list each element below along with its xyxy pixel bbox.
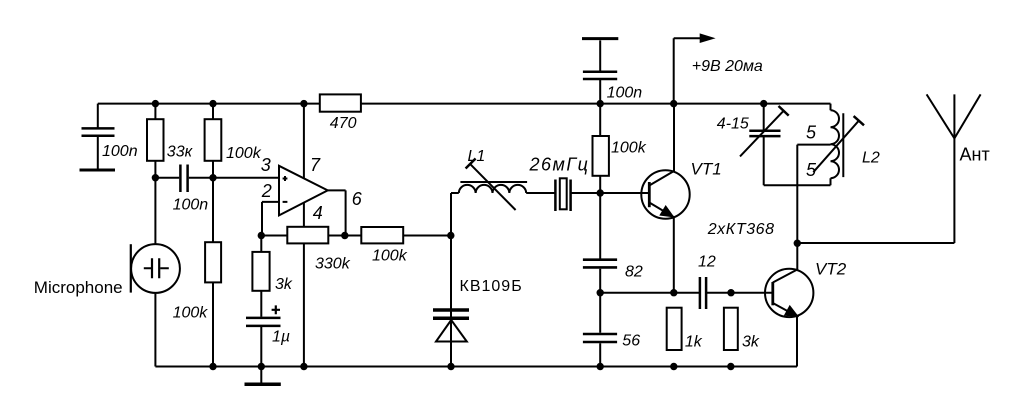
svg-text:VT2: VT2: [815, 259, 847, 278]
svg-text:L2: L2: [862, 149, 880, 166]
svg-text:470: 470: [330, 115, 357, 132]
svg-text:100n: 100n: [173, 197, 209, 214]
svg-text:3k: 3k: [275, 276, 293, 293]
svg-text:26мГц: 26мГц: [529, 154, 590, 174]
svg-text:56: 56: [622, 333, 640, 350]
svg-text:3k: 3k: [742, 334, 760, 351]
svg-text:5: 5: [806, 160, 817, 180]
svg-text:Microphone: Microphone: [34, 278, 123, 297]
svg-text:2: 2: [261, 181, 272, 201]
svg-text:3: 3: [261, 155, 271, 175]
svg-text:1k: 1k: [685, 334, 703, 351]
svg-text:100k: 100k: [173, 305, 209, 322]
svg-text:100k: 100k: [372, 247, 408, 264]
svg-text:+9В 20ма: +9В 20ма: [692, 58, 763, 75]
svg-text:12: 12: [698, 254, 716, 271]
svg-text:6: 6: [352, 189, 363, 209]
svg-text:2хКТ368: 2хКТ368: [707, 221, 775, 238]
svg-text:5: 5: [806, 123, 817, 143]
svg-text:82: 82: [625, 264, 643, 281]
svg-text:4-15: 4-15: [717, 116, 749, 133]
svg-text:100n: 100n: [102, 143, 138, 160]
svg-text:33к: 33к: [167, 144, 194, 161]
svg-text:100n: 100n: [607, 85, 643, 102]
svg-text:1µ: 1µ: [272, 329, 290, 346]
svg-text:4: 4: [313, 203, 323, 223]
svg-text:Ант: Ант: [960, 145, 990, 165]
svg-text:VT1: VT1: [691, 159, 722, 178]
svg-text:100k: 100k: [226, 145, 262, 162]
svg-text:КВ109Б: КВ109Б: [460, 278, 523, 295]
svg-text:330k: 330k: [315, 256, 351, 273]
svg-text:100k: 100k: [611, 139, 647, 156]
svg-text:7: 7: [310, 155, 321, 175]
svg-text:L1: L1: [468, 148, 486, 165]
